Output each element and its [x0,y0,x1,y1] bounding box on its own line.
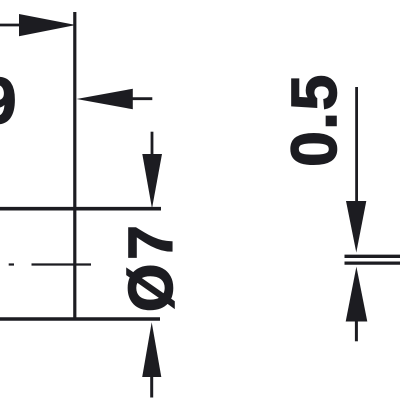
svg-text:Ø7: Ø7 [117,221,186,312]
svg-text:9: 9 [0,64,17,137]
svg-text:0.5: 0.5 [278,73,350,166]
